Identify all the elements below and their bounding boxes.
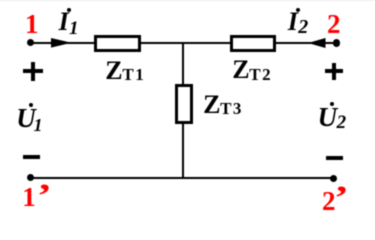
terminal label 2 <box>327 11 341 38</box>
I2 dot above <box>296 8 300 12</box>
terminal label 2' <box>322 188 336 215</box>
current arrow I1 <box>51 38 72 48</box>
minus sign left <box>23 155 41 159</box>
node 1 terminal dot <box>27 39 34 46</box>
wire top-middle segment <box>141 42 230 44</box>
current arrow I2 <box>308 38 326 48</box>
node 2 terminal dot <box>333 39 340 46</box>
label Z_T2 <box>232 57 249 83</box>
current label I1 <box>59 9 69 35</box>
U2 dot above <box>330 102 334 106</box>
wire top-left segment <box>31 42 94 44</box>
wire vertical upper segment <box>182 43 184 84</box>
plus sign right <box>325 69 343 73</box>
impedance Z_T1 <box>94 35 141 52</box>
node 1' terminal dot <box>27 174 34 181</box>
voltage label U2 <box>318 104 338 131</box>
voltage label U1 <box>16 105 36 132</box>
wire vertical lower segment <box>182 124 184 178</box>
impedance Z_T2 <box>230 35 277 52</box>
U1 subscript 1 <box>34 116 43 134</box>
minus sign right <box>326 156 343 160</box>
terminal label 1 <box>25 11 39 38</box>
plus sign left <box>23 69 43 73</box>
U1 dot above <box>29 103 33 107</box>
faint top page line <box>0 0 375 1</box>
wire bottom segment <box>30 177 333 179</box>
I1 subscript 1 <box>69 19 79 38</box>
I2 subscript 2 <box>298 17 308 37</box>
terminal label 1' apostrophe <box>37 180 52 213</box>
wire top-right segment <box>276 42 337 44</box>
I1 dot above <box>67 8 71 12</box>
terminal label 2' apostrophe <box>334 182 349 215</box>
label Z_T3 <box>203 92 220 118</box>
impedance Z_T3 <box>175 84 193 124</box>
label Z_T1 <box>105 58 122 84</box>
node 2' terminal dot <box>330 175 337 182</box>
current label I2 <box>288 9 298 35</box>
terminal label 1' <box>22 184 36 211</box>
U2 subscript 2 <box>337 113 347 132</box>
